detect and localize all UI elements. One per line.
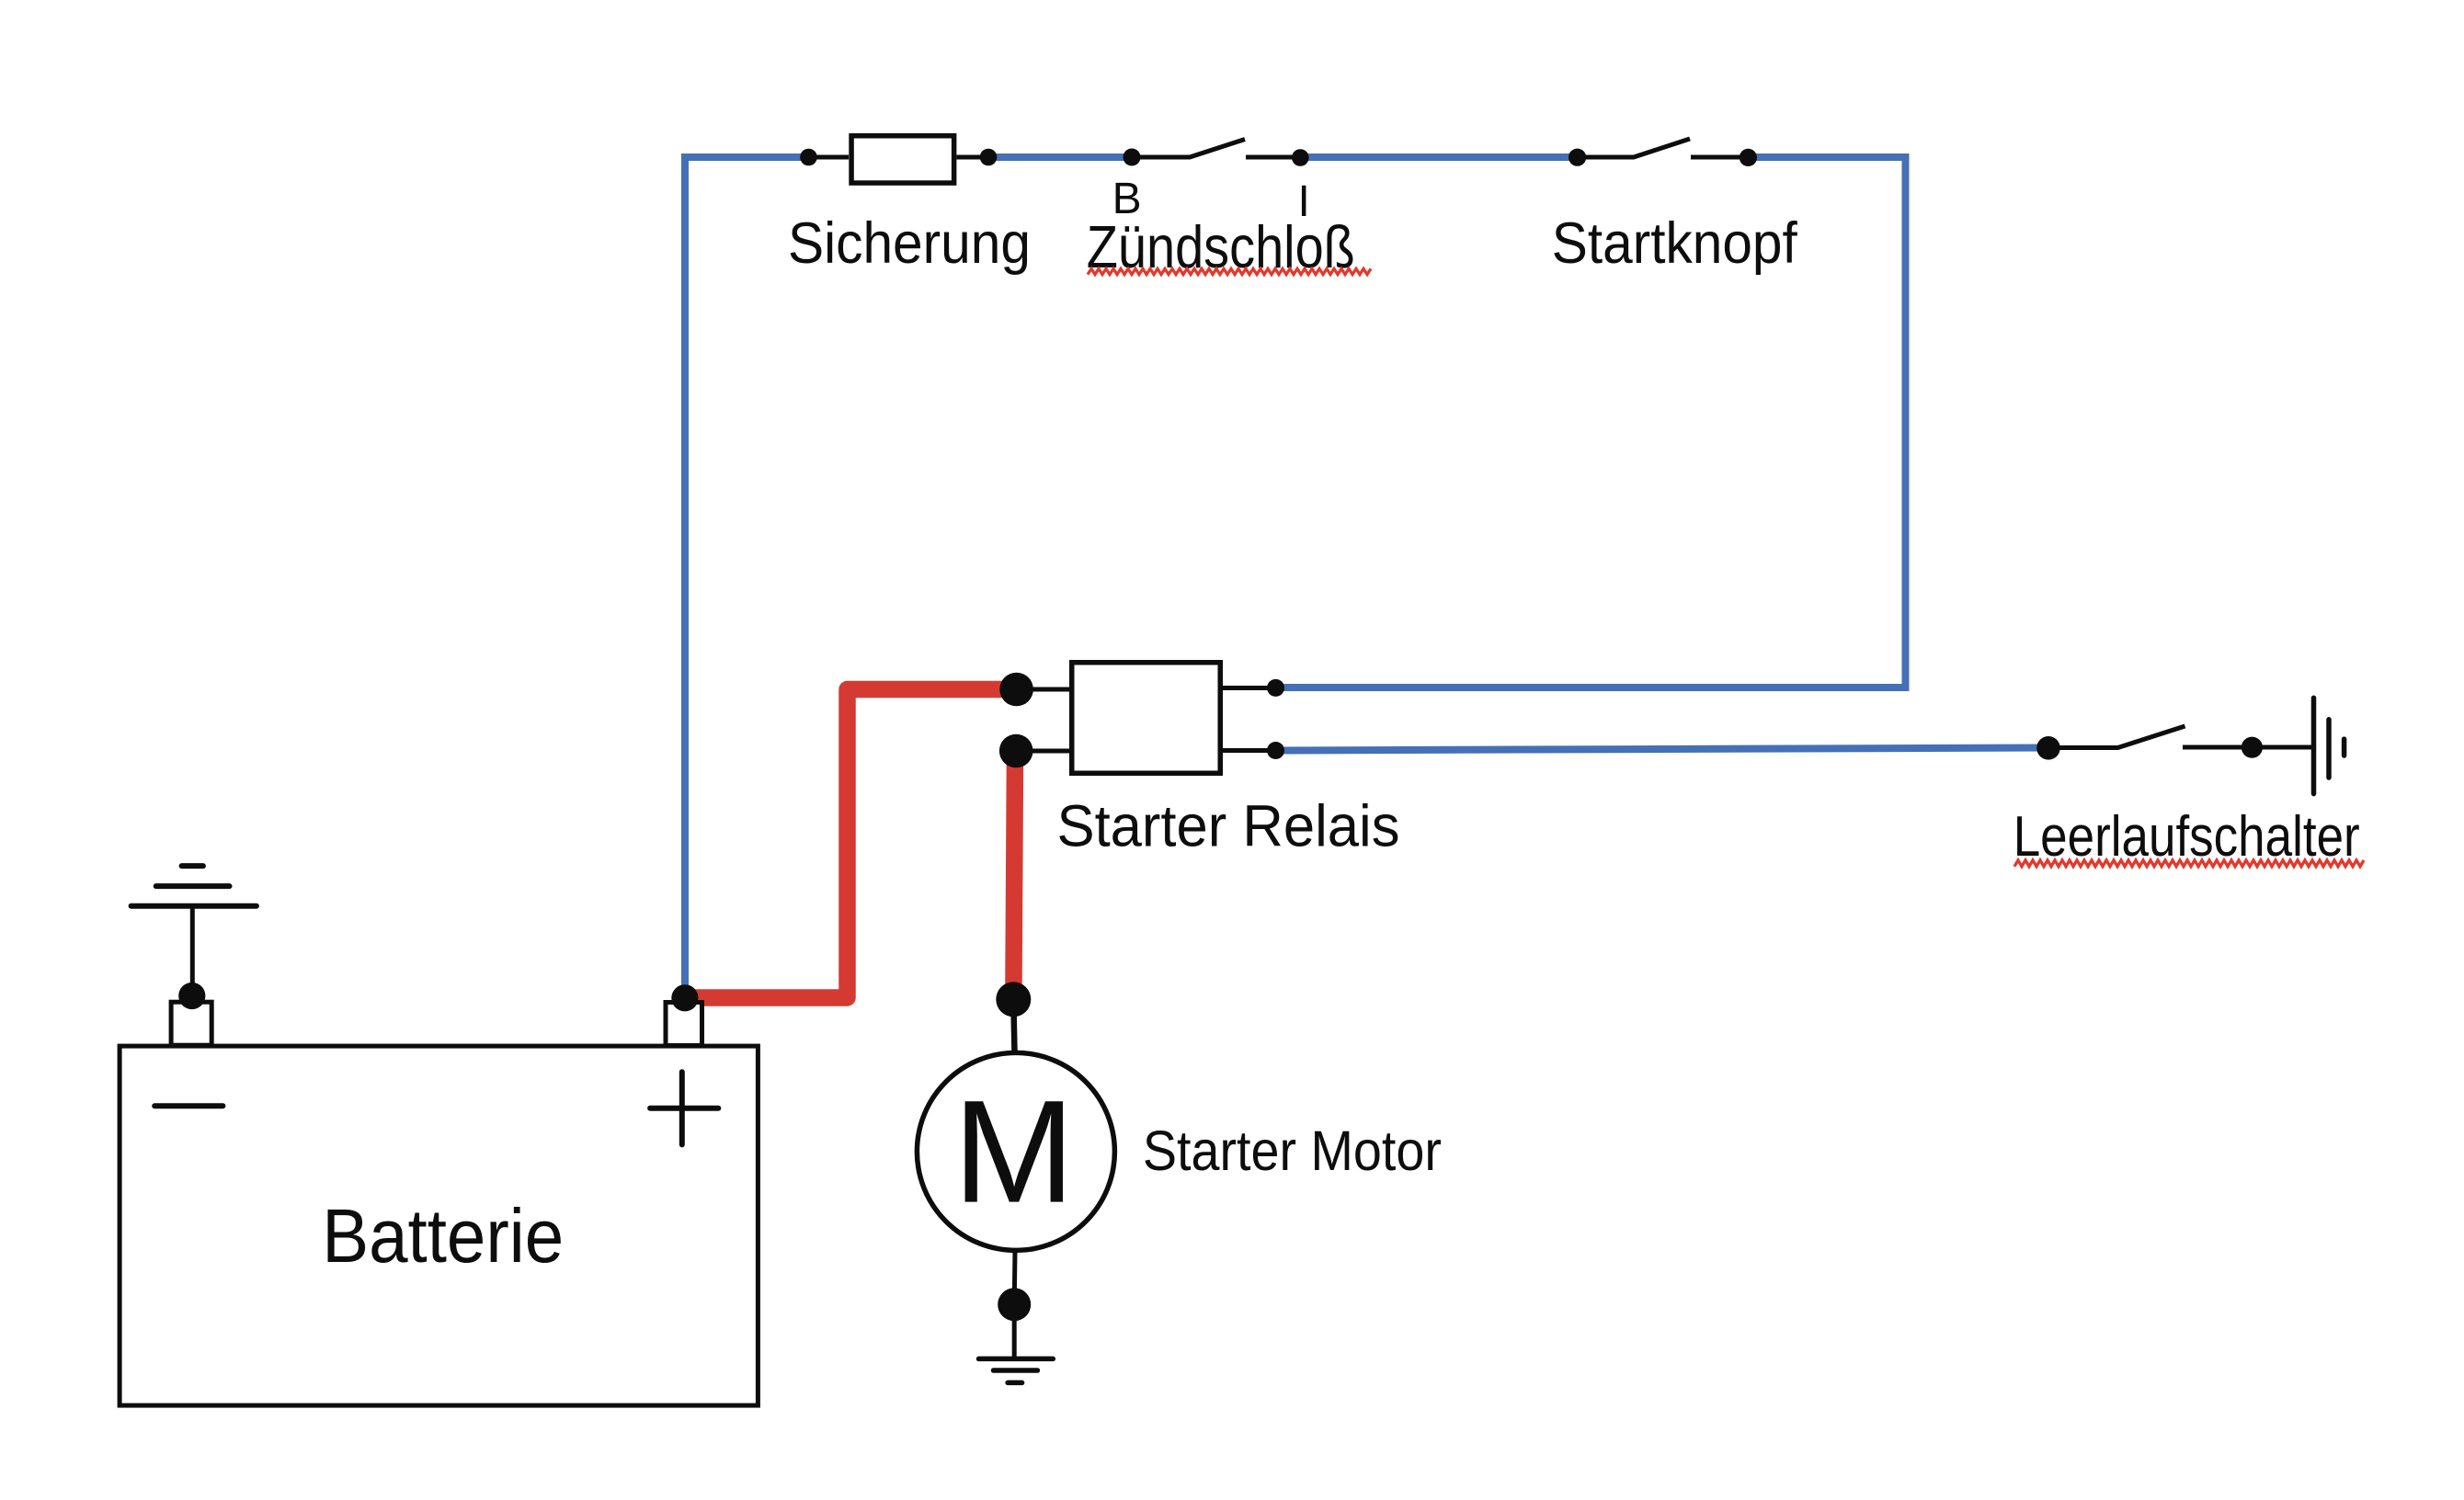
node: starter motor - terminal: [998, 1288, 1031, 1321]
junction dot: fuse left terminal: [800, 149, 817, 166]
junction dot: neutral switch left terminal: [2036, 736, 2060, 760]
spellcheck squiggle under Zündschloß: [1088, 268, 1371, 274]
ground symbol below starter motor: [979, 1358, 1054, 1382]
junction dot: ignition switch terminal B: [1124, 149, 1141, 166]
wire: blue ignition switch terminal I to start button: [1300, 153, 1578, 161]
node: relay coil - terminal (right bottom): [1267, 742, 1284, 759]
junction dot: start button left terminal: [1569, 149, 1586, 166]
node: battery - post junction: [178, 983, 205, 1009]
battery - polarity sign: [154, 1103, 222, 1108]
relay K "Starter Relais" body: [1016, 663, 1276, 774]
wire: blue from battery + terminal up left side and along top to fuse: [685, 157, 809, 995]
node: relay coil + terminal (right top): [1267, 679, 1284, 697]
svg-text:Starter Motor: Starter Motor: [1143, 1119, 1442, 1182]
wire: blue relay coil - terminal to neutral switch (Leerlaufschalter): [1276, 748, 2049, 751]
junction dot: ignition switch terminal I: [1292, 149, 1309, 166]
fuse F "Sicherung" body with lead stubs: [809, 136, 989, 183]
junction dot: start button right terminal: [1740, 149, 1757, 166]
svg-text:M: M: [953, 1070, 1075, 1233]
battery "Batterie" body: [120, 1046, 758, 1405]
wire: thick red battery + feed to relay contact input: [685, 689, 1011, 998]
spellcheck squiggle under Leerlaufschalter: [2014, 860, 2364, 867]
svg-text:Starter Relais: Starter Relais: [1057, 793, 1400, 859]
junction dot: fuse right terminal: [980, 149, 998, 166]
battery + polarity sign: [650, 1072, 718, 1144]
starter motor M body (circle) with leads: [917, 999, 1114, 1358]
switch: Leerlaufschalter neutral switch, open contact arm: [2048, 726, 2314, 748]
svg-text:Sicherung: Sicherung: [788, 211, 1031, 276]
wire: thick red relay contact output down to starter motor: [1013, 751, 1015, 994]
switch: Startknopf start button, open contact arm: [1578, 139, 1749, 157]
node: relay contact input terminal (left top): [999, 673, 1033, 707]
junction dot: neutral switch right terminal: [2242, 737, 2263, 758]
wire: blue start button along right side down to relay coil + terminal: [1278, 157, 1906, 687]
wire: blue fuse to ignition switch terminal B: [988, 153, 1132, 161]
ground symbol at neutral switch (vertical bars): [2314, 698, 2344, 793]
ground symbol above battery - terminal: [131, 866, 257, 995]
node: relay contact output terminal (left bottom): [999, 734, 1033, 768]
node: starter motor + terminal: [996, 982, 1031, 1017]
battery + terminal post: [666, 1003, 702, 1046]
svg-text:Startknopf: Startknopf: [1552, 211, 1797, 276]
switch: Zündschloß ignition switch, open contact arm: [1132, 140, 1300, 158]
svg-text:Batterie: Batterie: [322, 1193, 564, 1278]
node: battery + post junction: [671, 984, 698, 1011]
battery - terminal post: [171, 1002, 211, 1045]
